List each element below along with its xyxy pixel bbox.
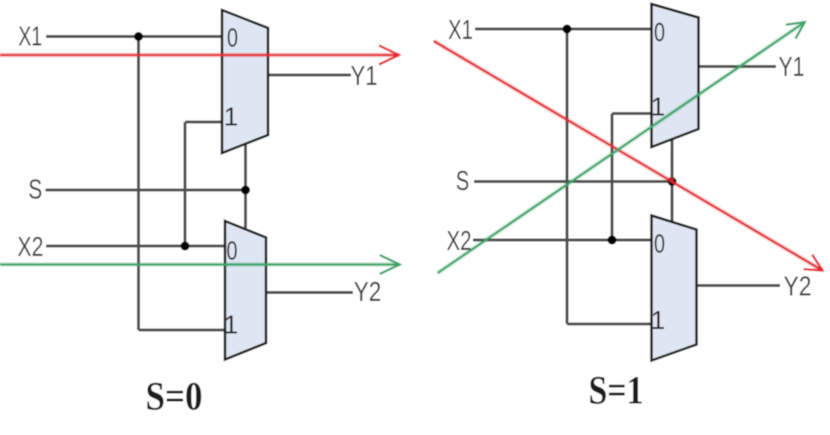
svg-text:0: 0 xyxy=(654,17,665,47)
svg-text:S=1: S=1 xyxy=(589,368,644,413)
svg-text:X2: X2 xyxy=(447,225,472,256)
svg-text:Y2: Y2 xyxy=(784,271,812,302)
svg-text:Y1: Y1 xyxy=(351,60,378,91)
svg-text:Y1: Y1 xyxy=(779,51,805,82)
svg-text:Y2: Y2 xyxy=(354,276,382,307)
svg-text:0: 0 xyxy=(654,229,665,259)
svg-text:1: 1 xyxy=(224,310,238,340)
svg-text:1: 1 xyxy=(224,102,238,132)
svg-text:X2: X2 xyxy=(17,231,43,262)
svg-text:X1: X1 xyxy=(18,21,42,52)
svg-text:0: 0 xyxy=(227,236,238,266)
svg-text:S: S xyxy=(28,174,42,205)
svg-text:S: S xyxy=(456,165,470,196)
svg-text:1: 1 xyxy=(651,92,665,122)
svg-text:X1: X1 xyxy=(448,14,473,45)
svg-text:0: 0 xyxy=(227,23,238,53)
svg-text:1: 1 xyxy=(651,305,665,335)
svg-text:S=0: S=0 xyxy=(146,374,203,419)
